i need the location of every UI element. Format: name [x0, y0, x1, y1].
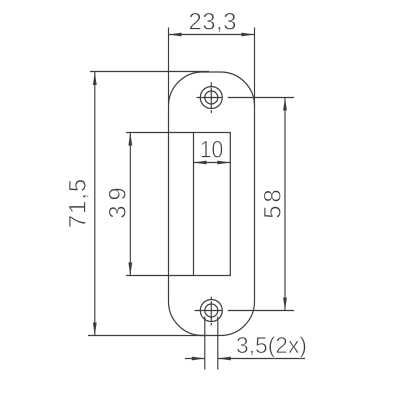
top hole centerline vertical: [210, 82, 212, 113]
svg-text:58: 58: [260, 189, 287, 219]
arrow 71,5 top: [93, 72, 97, 85]
arrow 71,5 bottom: [93, 323, 97, 336]
top hole centerline horizontal + 58 top extension: [197, 97, 295, 99]
dim 71,5 extension lines: [88, 72, 209, 336]
top hole outer: [200, 87, 222, 109]
svg-text:39: 39: [105, 187, 132, 219]
arrow 58 bottom: [283, 298, 287, 311]
arrow 58 top: [283, 98, 287, 111]
dim 3,5 line segments: [185, 358, 305, 360]
dim 58 line: [284, 98, 286, 311]
arrow 10 left: [194, 161, 207, 165]
arrow 23,3 left: [169, 33, 182, 37]
top hole inner: [205, 91, 218, 104]
dim 71,5 line: [94, 72, 96, 336]
svg-text:10: 10: [200, 137, 224, 164]
bottom hole inner: [205, 304, 218, 317]
bottom hole centerline horizontal + 58 bottom extension: [195, 310, 295, 312]
arrow 23,3 right: [242, 33, 255, 37]
arrow 3,5 left (points right): [192, 357, 205, 361]
dim 23,3 line: [169, 34, 255, 36]
arrow 39 top: [128, 133, 132, 146]
dim 39 extension lines: [126, 133, 194, 276]
slot: [194, 133, 231, 276]
dim 10 line: [194, 162, 231, 164]
arrow 3,5 right (points left): [218, 357, 231, 361]
dim 3,5 extension lines: [205, 317, 218, 370]
arrow 39 bottom: [128, 263, 132, 276]
dim 23,3 extension lines: [169, 28, 255, 107]
bottom hole centerline vertical: [210, 297, 212, 326]
arrow 10 right: [217, 161, 230, 165]
bottom hole outer: [200, 300, 222, 322]
svg-text:71,5: 71,5: [65, 179, 92, 229]
svg-text:23,3: 23,3: [189, 9, 237, 36]
svg-text:3,5(2x): 3,5(2x): [236, 332, 307, 358]
dim 39 line: [129, 133, 131, 276]
plate outline: [169, 72, 255, 336]
